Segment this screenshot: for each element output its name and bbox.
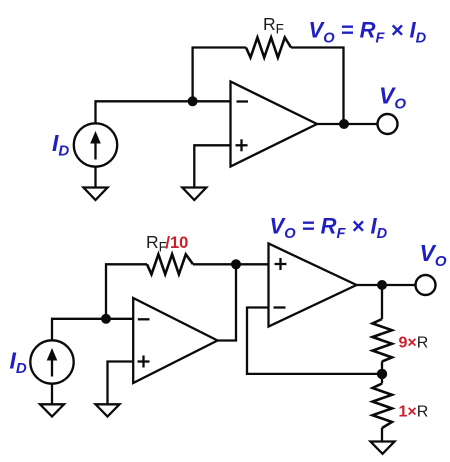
wire from current source I_D top to op-amp U1 inverting input — [96, 101, 231, 123]
op-amp U3 — [269, 244, 357, 327]
node A (junction at U1 inverting input) — [188, 96, 198, 106]
node E (divider junction) — [377, 369, 387, 379]
wire resistor 9xR to node E — [381, 362, 383, 374]
resistor RF (horizontal zigzag) — [246, 38, 291, 58]
current source I_D (bottom) — [30, 340, 73, 383]
svg-text:9×R: 9×R — [399, 335, 429, 352]
wire resistor 1xR to ground — [381, 428, 383, 442]
wire U1 output to terminal — [317, 123, 377, 125]
wire from resistor RF to output node — [291, 48, 344, 124]
wire from current source I_D (bottom) to op-amp U2 inverting input — [52, 319, 133, 341]
wire U2 output up to node D — [218, 264, 237, 340]
ground (bottom of divider) — [371, 442, 395, 454]
wire current source (bottom) to ground — [51, 384, 53, 405]
resistor RF/10 (horizontal zigzag) — [147, 254, 193, 274]
wire U2 non-inverting input to ground — [108, 362, 134, 405]
terminal VO (bottom, open circle) — [416, 275, 436, 295]
wire node E to resistor 1xR — [381, 374, 383, 384]
wire node F down to resistor 9xR — [381, 285, 383, 319]
node B (output junction, top) — [339, 119, 349, 129]
wire current source bottom to ground — [94, 167, 96, 188]
resistor 9xR (vertical zigzag) — [373, 319, 393, 362]
svg-text:1×R: 1×R — [399, 403, 429, 420]
node C (junction at U2 inverting input) — [101, 314, 111, 324]
node D (junction at U3 non-inverting input) — [231, 259, 241, 269]
ground (below current source, bottom circuit) — [40, 404, 64, 416]
ground (U1 non-inverting input) — [182, 188, 206, 201]
ground (U2 non-inverting input) — [96, 404, 120, 416]
svg-text:RF/10: RF/10 — [146, 232, 188, 255]
wire from resistor RF/10 to U3 non-inverting input — [193, 263, 269, 265]
ground (below current source, top circuit) — [84, 188, 108, 201]
wire node C up to resistor RF/10 — [106, 264, 147, 319]
wire feedback left vertical up to resistor RF — [193, 48, 246, 102]
op-amp U1 — [231, 82, 318, 167]
terminal VO (top, open circle) — [378, 114, 398, 134]
current source I_D (top) — [74, 123, 117, 166]
wire U3 output to terminal — [357, 284, 416, 286]
resistor 1xR (vertical zigzag) — [373, 384, 393, 429]
wire U1 non-inverting input to ground — [194, 145, 230, 187]
wire U3 inverting input feedback to node E — [247, 308, 382, 374]
op-amp U2 — [133, 298, 217, 383]
node F (output junction, bottom) — [377, 280, 387, 290]
